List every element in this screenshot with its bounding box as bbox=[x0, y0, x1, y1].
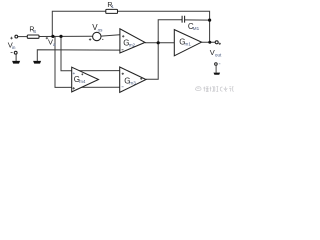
svg-text:m4: m4 bbox=[79, 79, 86, 84]
svg-text:M1: M1 bbox=[193, 26, 200, 31]
svg-text:in: in bbox=[12, 45, 16, 50]
svg-text:S: S bbox=[33, 29, 36, 34]
svg-text:m2: m2 bbox=[129, 43, 136, 48]
svg-text:out: out bbox=[215, 52, 222, 57]
svg-text:os: os bbox=[98, 27, 104, 32]
svg-text:1: 1 bbox=[111, 4, 114, 9]
svg-text:a: a bbox=[53, 42, 56, 47]
svg-text:m3: m3 bbox=[129, 80, 136, 85]
svg-text:m1: m1 bbox=[185, 42, 192, 47]
